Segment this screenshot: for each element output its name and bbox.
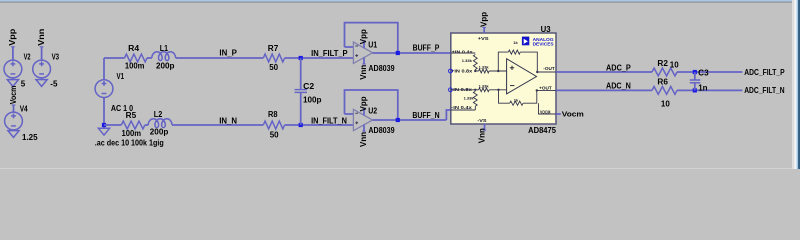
U3 internal bottom feedback right [523, 90, 537, 103]
junction IN_FILT_P / C2 [299, 56, 303, 60]
U3 internal node D [474, 89, 476, 91]
wire C3 upper [694, 72, 696, 80]
net anchor tick Vpp (U3) [483, 26, 486, 28]
inductor L1 [152, 52, 176, 61]
svg-text:10: 10 [670, 61, 679, 70]
voltage source V1 [95, 80, 113, 98]
svg-text:V4: V4 [20, 105, 28, 114]
U3 internal amp triangle [507, 59, 537, 94]
svg-text:Vocm: Vocm [562, 109, 584, 118]
op-amp U2 triangle [353, 109, 372, 130]
wire R7 to U1 +in (net IN_FILT_P) [285, 57, 354, 59]
svg-text:-IN 0.8x: -IN 0.8x [451, 87, 472, 92]
wire V3 bottom lead [41, 78, 43, 80]
ADI logo triangle [524, 39, 528, 44]
wire L2 to R8 (net IN_N) [172, 124, 263, 126]
wire R2 to C3/ADC_FILT_P [677, 71, 742, 73]
svg-text:U1: U1 [368, 41, 377, 50]
junction U2 output/feedback [396, 118, 400, 122]
resistor R5 [121, 121, 145, 129]
svg-text:.ac dec 10 100k 1gig: .ac dec 10 100k 1gig [95, 138, 164, 147]
wire R8 to U2 +in (net IN_FILT_N) [285, 124, 354, 126]
voltage source V2 [4, 60, 22, 78]
U3 internal +OUT row [537, 89, 556, 91]
U3 internal node B [497, 70, 499, 72]
svg-text:BUFF_N: BUFF_N [412, 111, 439, 120]
U3 internal +in row right [489, 70, 507, 72]
svg-text:Vpp: Vpp [359, 96, 368, 111]
ADI logo square [522, 37, 529, 46]
net anchor tick Vnn (U2) [362, 130, 365, 132]
svg-text:L1: L1 [160, 44, 169, 53]
U3 internal vert join top [474, 70, 476, 72]
wire C2 upper [300, 58, 302, 89]
wire U1 feedback loop [345, 23, 398, 53]
svg-text:Vnn: Vnn [359, 65, 368, 80]
svg-text:Vnn: Vnn [478, 128, 487, 143]
inductor L2 [148, 119, 172, 128]
svg-text:C3: C3 [698, 68, 709, 77]
U3 internal resistor 1.33k (0.4x top) [473, 55, 477, 70]
svg-text:Vpp: Vpp [479, 12, 488, 27]
wire V3 top lead [41, 47, 43, 61]
wire U2 feedback loop [345, 90, 398, 120]
net anchor tick Vocm (V4) [12, 104, 16, 106]
U3 internal -in row right [489, 89, 507, 91]
svg-text:-OUT: -OUT [543, 66, 555, 71]
junction ADC_FILT_N / C3 [693, 88, 697, 92]
ground (V3) [36, 80, 47, 87]
net anchor tick Vpp (U1) [362, 40, 365, 42]
svg-text:100m: 100m [122, 129, 142, 138]
U3 internal top feedback [498, 52, 508, 71]
svg-text:DEVICES: DEVICES [533, 42, 554, 47]
svg-text:-VS: -VS [477, 118, 486, 123]
svg-text:200p: 200p [156, 62, 175, 71]
svg-text:L2: L2 [154, 110, 163, 119]
wire U3 +VS stub [483, 27, 485, 33]
wire U1 Vnn stub [363, 57, 365, 64]
U2 inverting input mark [355, 112, 358, 114]
U3 internal vert join bot [474, 106, 476, 110]
U3 amp - mark [510, 85, 514, 87]
svg-text:+VS: +VS [478, 36, 489, 41]
wire R6 to C3/ADC_FILT_N [677, 89, 742, 91]
svg-text:Vocm: Vocm [9, 86, 18, 105]
wire U1 Vpp stub [363, 41, 365, 48]
wire L1 to R7 (net IN_P) [176, 57, 264, 59]
wire V1 top lead [103, 58, 105, 80]
U3 internal resistor 1.33k (0.8x top) [479, 69, 490, 73]
svg-text:100m: 100m [125, 62, 144, 71]
svg-text:1.25: 1.25 [22, 133, 38, 142]
svg-text:V2: V2 [24, 52, 31, 61]
svg-text:+IN 0.8x: +IN 0.8x [451, 69, 473, 74]
svg-text:ADC_FILT_P: ADC_FILT_P [744, 68, 785, 77]
U3 internal +in row left [475, 70, 478, 72]
junction V1/IN_N node [102, 123, 106, 127]
U3 internal resistor 1.33k (0.4x bot) [473, 91, 477, 106]
ground (V4) [8, 131, 19, 138]
wire V1 junction to R5 [104, 124, 121, 126]
wire U2 -in stub [345, 113, 354, 115]
U3 internal resistor 1.33k (0.8x bot) [479, 88, 490, 92]
svg-text:V3: V3 [52, 52, 60, 61]
svg-text:C2: C2 [303, 82, 315, 91]
wire V2 top lead [12, 47, 14, 61]
ground (V2) [7, 80, 18, 87]
net anchor tick Vnn (U3) [483, 129, 486, 131]
U3 internal VOCM line [539, 103, 557, 114]
svg-text:BUFF_P: BUFF_P [413, 44, 440, 53]
U3 internal feedback resistor bottom [510, 101, 523, 105]
wire VOCM to Vocm label [556, 113, 561, 115]
svg-text:AD8475: AD8475 [528, 126, 556, 135]
svg-text:IN_P: IN_P [219, 48, 237, 57]
U3 internal node A [474, 70, 476, 72]
svg-text:ADC_P: ADC_P [606, 63, 631, 72]
U3 internal node C [536, 71, 538, 73]
svg-text:100p: 100p [303, 95, 322, 104]
U3 internal -IN0.8x row [451, 89, 479, 91]
svg-text:U3: U3 [541, 25, 552, 34]
wire U2 Vnn stub [363, 125, 365, 132]
wire V2 bottom lead [12, 78, 14, 80]
AD8475 U3 body [451, 33, 556, 124]
svg-text:50: 50 [270, 131, 279, 140]
svg-text:Vnn: Vnn [359, 132, 368, 147]
svg-text:+IN 0.4x: +IN 0.4x [452, 50, 474, 55]
svg-text:200p: 200p [150, 128, 169, 137]
wire V4 bottom lead [13, 130, 15, 131]
wire U1 -in stub [345, 46, 354, 48]
svg-text:Vpp: Vpp [8, 29, 17, 46]
U3 internal node F [536, 89, 538, 91]
resistor R8 [263, 121, 284, 129]
capacitor C2 [295, 90, 307, 93]
ground (V1) [98, 128, 109, 135]
U1 inverting input mark [355, 45, 358, 47]
svg-text:U2: U2 [368, 106, 377, 115]
junction IN_FILT_N / C2 [299, 123, 303, 127]
capacitor C3 [690, 80, 701, 83]
wire U1 output (net BUFF_P) [373, 52, 451, 54]
net anchor tick Vpp (U2) [362, 107, 365, 109]
wire V4 top lead [13, 105, 15, 112]
svg-text:ADC_FILT_N: ADC_FILT_N [744, 86, 785, 95]
wire C2 lower [300, 93, 302, 125]
U3 internal node E [497, 89, 499, 91]
U3 internal bottom feedback [499, 90, 510, 103]
net anchor tick Vnn (U1) [362, 63, 365, 65]
junction U1 output/feedback [396, 51, 400, 55]
wire +OUT to R6 (net ADC_N) [556, 89, 652, 91]
svg-text:R7: R7 [268, 44, 279, 53]
svg-text:1k: 1k [514, 98, 519, 103]
svg-text:1.33k: 1.33k [479, 83, 490, 88]
junction ADC_FILT_P / C3 [693, 70, 697, 74]
svg-text:R2: R2 [657, 59, 668, 68]
wire C3 lower [694, 83, 696, 90]
svg-text:1n: 1n [698, 83, 707, 92]
U2 non-inverting input mark [355, 121, 358, 124]
svg-text:AD8039: AD8039 [368, 126, 395, 135]
resistor R7 [263, 54, 284, 62]
wire -OUT to R2 (net ADC_P) [556, 71, 652, 73]
resistor R4 [125, 54, 148, 62]
svg-text:+OUT: +OUT [539, 85, 552, 90]
wire U3 -VS stub [484, 124, 486, 130]
wire U2 output (net BUFF_N) [373, 119, 447, 121]
svg-text:Vpp: Vpp [359, 29, 368, 44]
net anchor tick Vnn (V3) [40, 46, 44, 48]
open pin circle -IN 0.8x [449, 88, 453, 92]
resistor R2 [652, 68, 677, 76]
resistor R6 [652, 87, 677, 95]
svg-text:Vnn: Vnn [37, 29, 46, 46]
wire V1 to R4 [104, 57, 125, 59]
wire V1 bottom lead [103, 97, 105, 128]
svg-text:V1: V1 [117, 72, 125, 81]
U3 internal +IN0.4x row [451, 52, 476, 54]
svg-text:50: 50 [269, 63, 278, 72]
svg-text:1.33k: 1.33k [462, 58, 473, 63]
wire BUFF_N rise to -IN 0.4x pin [446, 110, 450, 120]
voltage source V3 [33, 60, 51, 78]
U3 internal feedback resistor top [508, 50, 520, 54]
svg-text:ADC_N: ADC_N [606, 81, 631, 90]
svg-text:-IN 0.4x: -IN 0.4x [451, 105, 472, 110]
svg-text:-5: -5 [50, 79, 58, 88]
wire R4 to L1 [147, 57, 152, 59]
U1 non-inverting input mark [355, 54, 358, 57]
U3 internal -IN0.4x row [451, 109, 476, 111]
voltage source V4 [5, 112, 23, 130]
wire U2 Vpp stub [363, 108, 365, 115]
svg-text:IN_N: IN_N [219, 116, 237, 125]
wire R5 to L2 [145, 124, 148, 126]
U3 internal top feedback right [520, 52, 537, 72]
U3 amp + mark [510, 66, 514, 70]
svg-text:1.33k: 1.33k [479, 65, 490, 70]
svg-text:R8: R8 [268, 110, 278, 119]
svg-text:1.33k: 1.33k [464, 95, 475, 100]
svg-text:R5: R5 [126, 111, 137, 120]
svg-text:IN_FILT_P: IN_FILT_P [311, 49, 348, 58]
svg-text:R6: R6 [657, 77, 668, 86]
svg-text:AD8039: AD8039 [368, 64, 395, 73]
svg-text:R4: R4 [128, 44, 140, 53]
svg-text:10: 10 [661, 99, 670, 108]
svg-text:5: 5 [21, 79, 26, 88]
svg-text:1k: 1k [513, 40, 518, 45]
op-amp U1 triangle [353, 42, 372, 63]
net anchor tick Vpp (V2) [11, 46, 15, 48]
open pin circle +IN 0.8x [449, 69, 453, 73]
svg-text:IN_FILT_N: IN_FILT_N [311, 116, 347, 125]
U3 internal -OUT row [537, 71, 556, 73]
